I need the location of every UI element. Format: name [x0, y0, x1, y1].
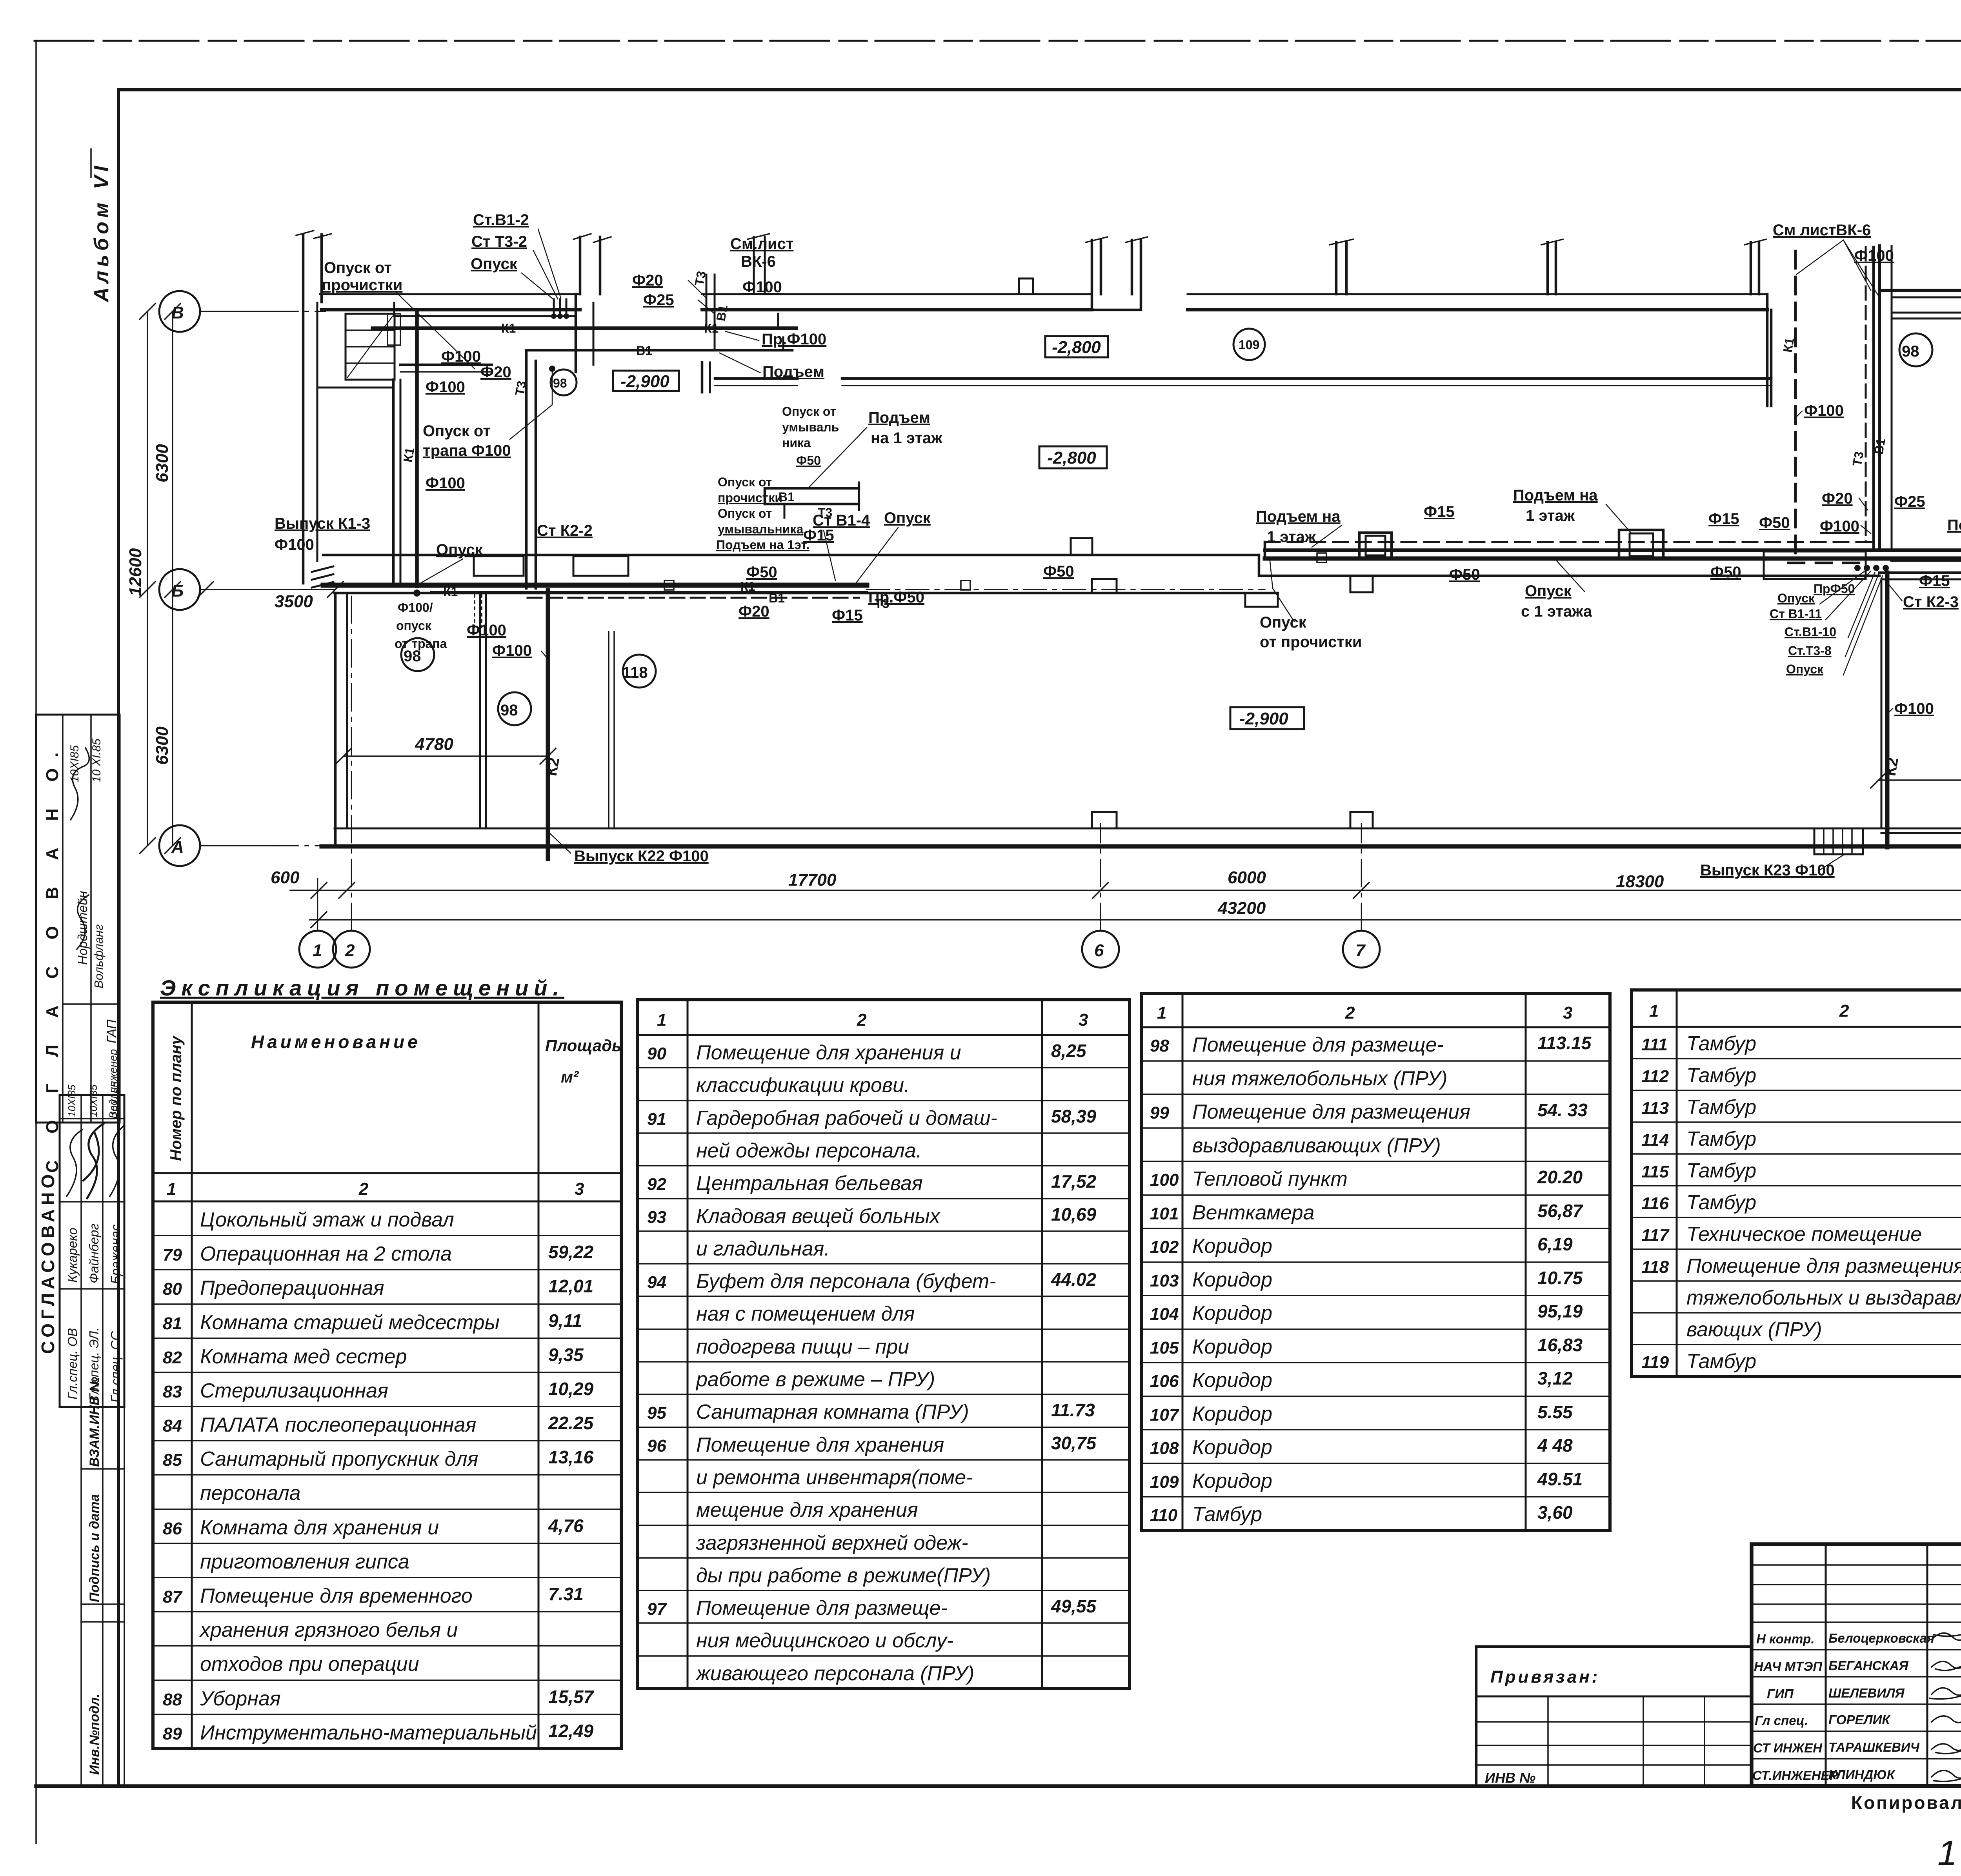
svg-text:Ф50: Ф50 [1043, 563, 1074, 580]
wall: pilaster pair x1922 [754, 237, 765, 294]
svg-text:6300: 6300 [153, 444, 172, 482]
svg-text:Центральная бельевая: Центральная бельевая [696, 1172, 923, 1195]
svg-text:79: 79 [163, 1245, 182, 1265]
corridor pipes right: K1 [1265, 557, 1961, 561]
pipe bend детали под умывальником [765, 488, 859, 504]
svg-text:3: 3 [1079, 1010, 1088, 1030]
pipe jog box [1359, 533, 1392, 559]
svg-text:Техническое помещение: Техническое помещение [1686, 1223, 1922, 1246]
svg-text:11.73: 11.73 [1051, 1400, 1095, 1420]
svg-text:84: 84 [163, 1416, 182, 1436]
svg-text:ПАЛАТА послеоперационная: ПАЛАТА послеоперационная [200, 1414, 476, 1436]
svg-text:6: 6 [1094, 941, 1104, 960]
corridor pipes left: K1 [323, 583, 867, 588]
svg-text:58,39: 58,39 [1051, 1106, 1097, 1126]
title block frame [1752, 1544, 1961, 1786]
svg-text:Н контр.: Н контр. [1756, 1632, 1814, 1646]
svg-text:2: 2 [358, 1179, 369, 1199]
svg-text:117: 117 [1641, 1226, 1670, 1245]
svg-text:12600: 12600 [126, 548, 145, 596]
svg-text:Помещение для хранения и: Помещение для хранения и [696, 1041, 961, 1064]
svg-text:8,25: 8,25 [1051, 1041, 1087, 1061]
pipe riser to 1st floor (arrow up at 1984) [778, 314, 783, 350]
svg-text:1: 1 [1649, 1001, 1659, 1021]
svg-text:95,19: 95,19 [1537, 1301, 1583, 1321]
svg-text:Файнберг: Файнберг [87, 1223, 101, 1283]
svg-text:Инструментально-материальный: Инструментально-материальный [200, 1721, 537, 1744]
riser dots cluster at x4560 [1864, 565, 1870, 571]
svg-text:трапа Ф100: трапа Ф100 [423, 442, 511, 459]
svg-text:85: 85 [163, 1450, 182, 1470]
svg-text:Опуск от: Опуск от [718, 506, 772, 520]
svg-text:Ф25: Ф25 [1894, 493, 1925, 510]
svg-text:1: 1 [167, 1179, 176, 1199]
svg-text:и гладильная.: и гладильная. [696, 1237, 830, 1260]
dim 6225 [1879, 779, 1961, 781]
svg-text:3,60: 3,60 [1537, 1502, 1573, 1523]
svg-text:Опуск: Опуск [1777, 591, 1815, 605]
small pipe squares on corridor [664, 580, 674, 590]
svg-text:ВК-6: ВК-6 [741, 253, 776, 270]
svg-text:82: 82 [163, 1348, 182, 1367]
svg-text:Ф25: Ф25 [643, 291, 674, 309]
svg-text:6000: 6000 [1228, 868, 1266, 887]
signatures squiggles [1932, 1633, 1961, 1640]
svg-text:108: 108 [1150, 1439, 1179, 1458]
margin signatures (squiggles) [71, 748, 89, 820]
svg-text:114: 114 [1641, 1130, 1669, 1150]
pipe transition at x3225 [1264, 542, 1266, 559]
pipe K2 vertical left with outlet [546, 590, 550, 859]
svg-text:Опуск: Опуск [884, 509, 931, 527]
svg-text:4 48: 4 48 [1537, 1435, 1573, 1456]
svg-text:88: 88 [163, 1690, 182, 1709]
corridor wall right part [1259, 555, 1879, 576]
svg-text:99: 99 [1150, 1103, 1169, 1123]
svg-text:Ф20: Ф20 [1822, 490, 1853, 507]
svg-text:Ст В1-4: Ст В1-4 [813, 512, 870, 529]
svg-text:Инв.№подл.: Инв.№подл. [87, 1694, 102, 1775]
svg-text:Экспликация помещений.: Экспликация помещений. [160, 975, 564, 1000]
svg-text:118: 118 [622, 664, 648, 681]
svg-text:Коридор: Коридор [1192, 1369, 1272, 1392]
wall: duct at stair [387, 314, 400, 345]
svg-text:10XI85: 10XI85 [66, 1084, 78, 1117]
table 3 frame [1141, 993, 1610, 1530]
wall: pilaster pair x3946 [1548, 242, 1556, 294]
svg-text:4,76: 4,76 [548, 1516, 584, 1536]
svg-text:10XI85: 10XI85 [68, 745, 81, 782]
wall: pilaster bump x2598 [1019, 278, 1033, 294]
svg-text:См листВК-6: См листВК-6 [1773, 222, 1871, 239]
svg-text:18300: 18300 [1616, 872, 1664, 891]
room circles [401, 329, 1932, 725]
wall: top band upper-left block [320, 293, 580, 295]
dim 4780 [344, 755, 548, 757]
svg-text:87: 87 [163, 1587, 183, 1607]
svg-text:Помещение для размеще-: Помещение для размеще- [696, 1597, 948, 1619]
svg-text:Уборная: Уборная [200, 1687, 281, 1710]
svg-text:80: 80 [163, 1279, 182, 1299]
svg-text:100: 100 [1150, 1170, 1179, 1190]
svg-text:ней одежды персонала.: ней одежды персонала. [696, 1139, 922, 1162]
pipe riser cluster St.V1-2 [554, 299, 566, 314]
svg-text:98: 98 [553, 376, 567, 390]
svg-text:Ф100: Ф100 [275, 536, 314, 553]
svg-text:3500: 3500 [275, 592, 313, 611]
left vertical dim lines [147, 311, 148, 846]
svg-text:отходов при операции: отходов при операции [200, 1653, 419, 1676]
pipe outlet K1-3 stub [312, 566, 333, 588]
svg-text:Браженас: Браженас [108, 1224, 123, 1284]
svg-text:600: 600 [271, 868, 300, 887]
svg-text:классификации крови.: классификации крови. [696, 1074, 910, 1097]
svg-text:Ф100: Ф100 [742, 278, 782, 296]
svg-text:49,55: 49,55 [1051, 1596, 1097, 1616]
svg-text:1 этаж: 1 этаж [1267, 528, 1316, 546]
svg-text:Ф100: Ф100 [1854, 247, 1894, 264]
svg-text:118: 118 [1641, 1257, 1669, 1277]
outer sheet border top (dashed scan look) [35, 40, 1961, 42]
wall: inner horizontal y965 [400, 365, 1771, 378]
svg-text:ная с помещением для: ная с помещением для [696, 1303, 915, 1325]
svg-text:ГОРЕЛИК: ГОРЕЛИК [1828, 1712, 1891, 1727]
svg-text:умываль: умываль [782, 420, 839, 434]
svg-text:К1: К1 [443, 585, 458, 599]
svg-text:Тамбур: Тамбур [1686, 1096, 1756, 1119]
svg-text:В1: В1 [1871, 437, 1888, 456]
svg-text:-2,800: -2,800 [1047, 448, 1096, 468]
svg-text:30,75: 30,75 [1051, 1433, 1097, 1453]
svg-text:подогрева пищи – при: подогрева пищи – при [696, 1336, 909, 1358]
svg-text:Помещение для хранения: Помещение для хранения [696, 1434, 944, 1456]
table 2 frame [637, 1000, 1130, 1689]
svg-text:Тамбур: Тамбур [1686, 1128, 1756, 1150]
svg-text:3,12: 3,12 [1537, 1368, 1573, 1388]
svg-text:94: 94 [647, 1273, 666, 1292]
svg-text:2: 2 [1839, 1001, 1849, 1021]
svg-text:6,19: 6,19 [1537, 1234, 1573, 1254]
bottom exterior wall [335, 828, 1961, 830]
svg-text:выздоравливающих (ПРУ): выздоравливающих (ПРУ) [1192, 1134, 1441, 1157]
axis line Б (3500 dim) [200, 589, 335, 590]
svg-text:Санитарная комната (ПРУ): Санитарная комната (ПРУ) [696, 1401, 969, 1423]
svg-text:Ф15: Ф15 [1424, 503, 1455, 520]
svg-text:17700: 17700 [788, 870, 837, 890]
svg-text:2: 2 [1345, 1003, 1355, 1023]
axis line В dash-dot [200, 311, 275, 312]
partition x1559 thin [608, 631, 609, 828]
svg-text:54. 33: 54. 33 [1537, 1100, 1588, 1120]
svg-text:тяжелобольных и выздаравли-: тяжелобольных и выздаравли- [1686, 1286, 1961, 1309]
svg-text:Комната для хранения и: Комната для хранения и [200, 1516, 439, 1539]
svg-text:Ф100: Ф100 [1820, 518, 1859, 535]
svg-text:5.55: 5.55 [1537, 1402, 1573, 1422]
svg-text:Подъем: Подъем [868, 409, 930, 426]
svg-text:К1: К1 [400, 446, 417, 463]
svg-text:Комната старшей медсестры: Комната старшей медсестры [200, 1311, 500, 1334]
svg-text:104: 104 [1150, 1305, 1179, 1324]
svg-text:Т3: Т3 [692, 270, 708, 287]
svg-text:Опуск от: Опуск от [718, 475, 772, 489]
svg-text:Ст К2-3: Ст К2-3 [1903, 593, 1959, 611]
svg-text:ВЗАМ.ИНВ №: ВЗАМ.ИНВ № [87, 1377, 102, 1467]
svg-text:Помещение для размеще-: Помещение для размеще- [1192, 1034, 1444, 1056]
frame bottom line [36, 1784, 1961, 1788]
svg-text:Гл.спец. СС: Гл.спец. СС [108, 1331, 123, 1403]
svg-text:Опуск от: Опуск от [324, 259, 392, 277]
svg-text:Стерилизационная: Стерилизационная [200, 1379, 388, 1402]
svg-text:приготовления гипса: приготовления гипса [200, 1550, 409, 1573]
axis verticals from bottom circles [317, 879, 318, 931]
svg-text:10,69: 10,69 [1051, 1204, 1097, 1225]
wall: big pier top middle [1092, 240, 1141, 310]
svg-text:Тамбур: Тамбур [1686, 1159, 1756, 1182]
svg-text:113: 113 [1641, 1099, 1669, 1118]
pipe B1 horizontal upper [526, 349, 792, 352]
svg-text:прочистки: прочистки [322, 277, 402, 294]
partition x1224 [480, 593, 486, 828]
wall: shaft 2 (x1466) [579, 237, 582, 294]
svg-text:Ф100: Ф100 [467, 622, 506, 639]
svg-text:13,16: 13,16 [548, 1447, 594, 1467]
right block: inner horizontal [1892, 312, 1961, 314]
svg-text:-2,900: -2,900 [1239, 709, 1288, 728]
bottom axis circles [299, 931, 336, 968]
svg-text:Коридор: Коридор [1192, 1403, 1272, 1425]
wall: pilaster pair x4464 [1751, 242, 1759, 294]
svg-text:10XI.85: 10XI.85 [109, 1082, 121, 1117]
svg-text:В1: В1 [636, 344, 652, 358]
svg-text:Цокольный этаж и подвал: Цокольный этаж и подвал [200, 1208, 454, 1231]
svg-text:Опуск: Опуск [1786, 662, 1824, 676]
svg-text:Ф100: Ф100 [1804, 402, 1844, 419]
svg-text:3: 3 [575, 1179, 584, 1199]
svg-text:2: 2 [857, 1010, 867, 1030]
svg-text:Опуск: Опуск [1525, 582, 1572, 600]
svg-text:20.20: 20.20 [1537, 1167, 1583, 1187]
svg-text:БЕГАНСКАЯ: БЕГАНСКАЯ [1828, 1658, 1909, 1673]
svg-text:115: 115 [1641, 1162, 1669, 1181]
svg-text:59,22: 59,22 [548, 1242, 594, 1262]
svg-text:89: 89 [163, 1724, 182, 1743]
axis B dashed through corridor [867, 589, 1265, 590]
corridor upper wall left part [323, 554, 1259, 557]
svg-text:Подъем на: Подъем на [1256, 508, 1341, 525]
svg-text:Тамбур: Тамбур [1686, 1191, 1756, 1214]
svg-text:Ф15: Ф15 [1708, 510, 1739, 528]
svg-text:работе в режиме – ПРУ): работе в режиме – ПРУ) [695, 1368, 935, 1391]
svg-text:Опуск: Опуск [436, 541, 483, 559]
pipe dotted F15 riser near corridor [475, 595, 482, 628]
svg-text:17,52: 17,52 [1051, 1171, 1097, 1192]
svg-text:хранения грязного белья и: хранения грязного белья и [199, 1619, 458, 1641]
svg-text:119: 119 [1641, 1353, 1669, 1372]
pipe K2 vertical right [1885, 573, 1890, 847]
wall: right end of top band drop [1767, 294, 1771, 406]
svg-text:49.51: 49.51 [1537, 1469, 1583, 1489]
svg-text:СТ ИНЖЕН: СТ ИНЖЕН [1753, 1741, 1823, 1755]
svg-text:93: 93 [647, 1208, 666, 1227]
lower-right room walls [1881, 579, 1961, 580]
svg-text:107: 107 [1150, 1405, 1180, 1425]
privyazan box [1476, 1647, 1752, 1786]
svg-text:98: 98 [1150, 1036, 1169, 1055]
svg-text:ГАП: ГАП [104, 1019, 119, 1043]
svg-text:Кукареко: Кукареко [65, 1228, 80, 1283]
svg-text:Вольфланг: Вольфланг [92, 924, 106, 988]
svg-text:2: 2 [345, 941, 355, 960]
wall: top band section 2 [702, 293, 1092, 295]
svg-text:Выпуск К22 Ф100: Выпуск К22 Ф100 [574, 848, 709, 865]
svg-text:Комната мед сестер: Комната мед сестер [200, 1345, 407, 1368]
svg-text:ГИП: ГИП [1767, 1687, 1794, 1701]
pipe K1 vertical left [415, 310, 419, 586]
svg-text:116: 116 [1641, 1194, 1669, 1213]
svg-text:Ф100: Ф100 [492, 642, 532, 659]
svg-text:Коридор: Коридор [1192, 1436, 1272, 1459]
svg-text:Ф50: Ф50 [1449, 566, 1480, 583]
svg-text:109: 109 [1239, 338, 1259, 352]
svg-text:м²: м² [561, 1068, 579, 1086]
svg-text:Ф20: Ф20 [632, 272, 663, 289]
svg-text:105: 105 [1150, 1338, 1179, 1357]
svg-text:22.25: 22.25 [548, 1413, 594, 1433]
svg-text:92: 92 [647, 1175, 666, 1194]
svg-text:16,83: 16,83 [1537, 1335, 1583, 1355]
svg-text:Альбом VI: Альбом VI [90, 162, 113, 303]
svg-text:98: 98 [1902, 343, 1919, 360]
svg-text:Гардеробная рабочей и домаш-: Гардеробная рабочей и домаш- [696, 1107, 997, 1130]
svg-text:43200: 43200 [1217, 899, 1266, 918]
svg-text:90: 90 [647, 1044, 666, 1063]
svg-text:Ф50: Ф50 [746, 564, 777, 581]
right block: left wall [1878, 246, 1881, 550]
pipe K1 vertical dashed middle [1794, 251, 1797, 559]
svg-text:Ф100: Ф100 [426, 475, 465, 492]
svg-text:102: 102 [1150, 1237, 1179, 1257]
svg-text:10 XI.85: 10 XI.85 [90, 739, 103, 782]
svg-text:вающих (ПРУ): вающих (ПРУ) [1686, 1318, 1822, 1341]
svg-text:4780: 4780 [415, 735, 453, 754]
svg-text:Санитарный пропускник для: Санитарный пропускник для [200, 1448, 478, 1470]
wall: top-left shaft [302, 235, 305, 583]
stair symbol at bottom right [1814, 828, 1863, 854]
svg-text:109: 109 [1150, 1472, 1179, 1492]
svg-text:113.15: 113.15 [1537, 1033, 1592, 1053]
svg-text:ИНВ №: ИНВ № [1485, 1770, 1535, 1786]
svg-text:ника: ника [782, 436, 811, 450]
axis line А dash-dot [200, 845, 275, 846]
axis circle Б [159, 569, 200, 610]
svg-text:-2,900: -2,900 [620, 372, 669, 391]
svg-text:от прочистки: от прочистки [1260, 633, 1362, 651]
svg-text:98: 98 [404, 648, 421, 665]
svg-text:-2,800: -2,800 [1052, 338, 1101, 357]
svg-text:Тамбур: Тамбур [1192, 1503, 1262, 1526]
svg-text:Буфет для персонала (буфет-: Буфет для персонала (буфет- [696, 1270, 996, 1293]
svg-text:прочистки: прочистки [718, 491, 782, 505]
svg-text:Ф50: Ф50 [796, 453, 821, 468]
svg-text:Ф50: Ф50 [1759, 514, 1790, 531]
axis circle А [159, 825, 200, 866]
svg-text:Коридор: Коридор [1192, 1470, 1272, 1492]
svg-text:СОГЛАСОВАНО: СОГЛАСОВАНО [38, 1170, 58, 1354]
svg-text:Опуск: Опуск [1260, 614, 1307, 631]
svg-text:Помещение для размещения: Помещение для размещения [1192, 1101, 1470, 1123]
svg-text:Копировал:: Копировал: [1851, 1792, 1961, 1813]
axis circle В [159, 291, 200, 332]
svg-text:Гл.спец. ОВ: Гл.спец. ОВ [65, 1328, 80, 1399]
svg-text:Нордштейн: Нордштейн [75, 891, 90, 965]
svg-text:Коридор: Коридор [1192, 1268, 1272, 1291]
svg-text:Пр.Ф100: Пр.Ф100 [762, 331, 826, 348]
svg-text:7: 7 [1355, 941, 1366, 960]
lower stamp grid [60, 1095, 124, 1407]
svg-text:В1: В1 [769, 591, 785, 605]
svg-text:44.02: 44.02 [1051, 1269, 1097, 1290]
svg-text:Т3: Т3 [512, 380, 529, 397]
pipe K1 horizontal upper [373, 326, 796, 330]
svg-text:ния медицинского и обслу-: ния медицинского и обслу- [696, 1629, 953, 1652]
svg-text:Коридор: Коридор [1192, 1336, 1272, 1358]
svg-text:97: 97 [647, 1599, 667, 1619]
svg-text:Опуск от: Опуск от [782, 404, 836, 419]
svg-text:Тамбур: Тамбур [1686, 1032, 1756, 1055]
svg-text:Подпись и дата: Подпись и дата [87, 1494, 102, 1602]
svg-text:Ст К2-2: Ст К2-2 [537, 522, 593, 539]
upper stamp block frame [36, 715, 120, 1123]
svg-text:Кладовая вещей больных: Кладовая вещей больных [696, 1205, 941, 1228]
svg-text:Ф100: Ф100 [441, 348, 481, 365]
svg-text:96: 96 [647, 1436, 666, 1456]
svg-text:К1: К1 [740, 579, 755, 593]
svg-text:112: 112 [1641, 1067, 1669, 1086]
svg-text:56,87: 56,87 [1537, 1201, 1584, 1221]
svg-text:К1: К1 [1780, 337, 1797, 353]
svg-text:10XI85: 10XI85 [87, 1084, 99, 1117]
svg-text:См.лист: См.лист [730, 235, 793, 253]
svg-text:Ст.В1-2: Ст.В1-2 [473, 211, 529, 229]
svg-text:1: 1 [657, 1010, 666, 1030]
svg-text:Площадь: Площадь [545, 1036, 622, 1055]
corridor pipes right: T3 [1265, 541, 1879, 543]
svg-text:Помещение для временного: Помещение для временного [200, 1585, 473, 1607]
svg-text:3: 3 [1563, 1003, 1572, 1023]
corridor pipes left: B1 [431, 591, 867, 594]
svg-text:В1: В1 [713, 304, 730, 322]
svg-text:98: 98 [500, 702, 518, 719]
svg-text:86: 86 [163, 1519, 182, 1538]
svg-text:НАЧ МТЭП: НАЧ МТЭП [1754, 1659, 1823, 1674]
svg-text:Ф100: Ф100 [426, 378, 465, 396]
svg-text:6300: 6300 [153, 726, 172, 765]
svg-text:Помещение для размещения: Помещение для размещения [1686, 1255, 1961, 1277]
svg-text:Коридор: Коридор [1192, 1235, 1272, 1257]
svg-text:Ф100: Ф100 [1894, 700, 1934, 717]
wall: top band section 3 [1188, 293, 1767, 295]
svg-text:Ст Т3-2: Ст Т3-2 [471, 233, 527, 250]
outer sheet border left [35, 41, 37, 1843]
svg-text:Подъем на: Подъем на [1513, 487, 1598, 504]
svg-text:на 1 этаж: на 1 этаж [871, 429, 942, 447]
svg-text:мещение для хранения: мещение для хранения [696, 1499, 918, 1521]
svg-text:Гл спец.: Гл спец. [1755, 1713, 1808, 1728]
svg-text:Ст.В1-10: Ст.В1-10 [1785, 625, 1836, 639]
table 4 frame [1632, 990, 1961, 1376]
svg-text:ды при работе в режиме(ПРУ): ды при работе в режиме(ПРУ) [696, 1564, 991, 1587]
corridor lower wall left part [335, 592, 1278, 595]
